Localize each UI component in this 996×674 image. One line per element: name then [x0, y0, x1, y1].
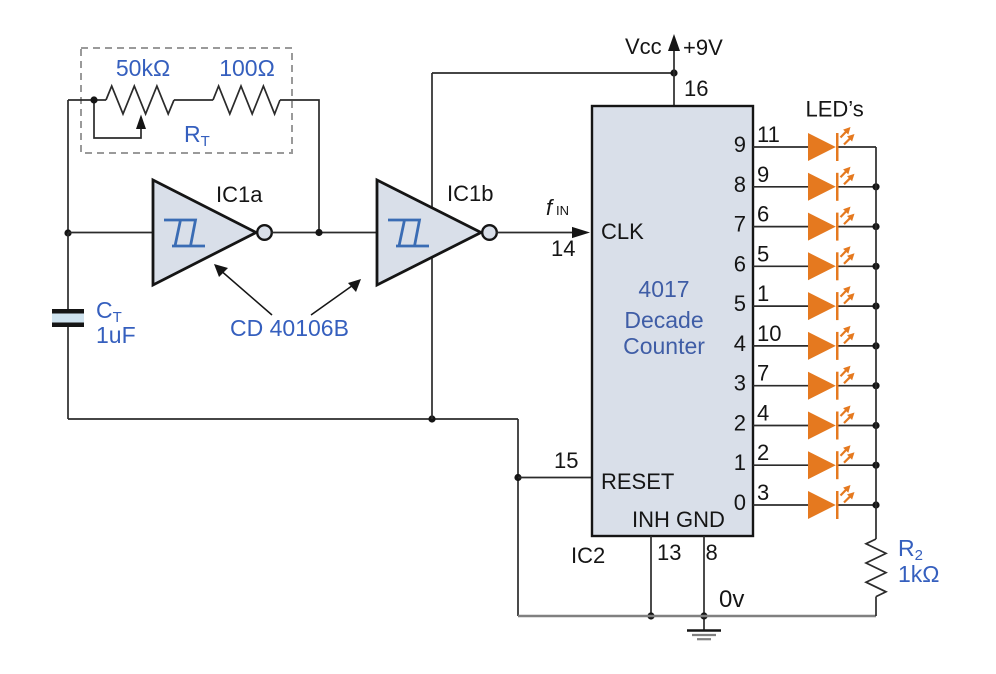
wire: LED cathode to common rail	[839, 385, 877, 387]
svg-text:IC2: IC2	[571, 543, 605, 568]
svg-text:3: 3	[734, 371, 746, 396]
svg-text:1: 1	[734, 450, 746, 475]
junction: rail row 0	[872, 501, 879, 508]
svg-text:+9V: +9V	[683, 35, 723, 60]
LED D1	[808, 127, 855, 161]
svg-text:RESET: RESET	[601, 469, 674, 494]
capacitor CT	[52, 309, 84, 327]
junction: Vcc node	[670, 69, 677, 76]
op-amp/inverter IC1a	[153, 180, 272, 285]
power symbol Vcc arrow	[673, 50, 675, 106]
junction: feedback node	[315, 229, 322, 236]
wire: bottom run corner down to 0v rail	[517, 419, 519, 616]
svg-text:0v: 0v	[719, 586, 744, 613]
wire: output 8 to LED	[753, 186, 808, 188]
wire: LED cathode to common rail	[839, 305, 877, 307]
wire: LED cathode to common rail	[839, 425, 877, 427]
wire: output 9 to LED	[753, 146, 808, 148]
svg-text:6: 6	[734, 251, 746, 276]
LED D3	[808, 207, 855, 241]
resistor R2 zigzag	[866, 539, 886, 597]
junction: rail row 4	[872, 342, 879, 349]
junction: rail row 8	[872, 183, 879, 190]
svg-text:IN: IN	[556, 203, 569, 218]
wire: CT bottom to ground rail	[67, 327, 69, 419]
svg-text:2: 2	[757, 440, 769, 465]
wire: 0v rail (grey)	[518, 615, 876, 617]
svg-text:4: 4	[757, 401, 769, 426]
op-amp/inverter IC1b	[377, 180, 497, 285]
svg-text:1kΩ: 1kΩ	[898, 561, 940, 587]
wire: LED cathode to common rail	[839, 226, 877, 228]
ground symbol	[687, 631, 721, 640]
svg-text:1: 1	[757, 281, 769, 306]
svg-text:100Ω: 100Ω	[219, 55, 275, 81]
wire: output 3 to LED	[753, 385, 808, 387]
wire: GND pin 8	[703, 536, 705, 630]
svg-text:CD 40106B: CD 40106B	[230, 315, 349, 341]
svg-text:IC1a: IC1a	[216, 182, 263, 207]
svg-text:5: 5	[734, 291, 746, 316]
wire: left vertical to CT	[67, 233, 69, 309]
annotation arrow to IC1b	[311, 283, 356, 315]
wire: pot right lead to feedback corner	[280, 100, 319, 233]
wire: output 4 to LED	[753, 345, 808, 347]
junction: rail row 3	[872, 382, 879, 389]
svg-text:4: 4	[734, 331, 746, 356]
wire: pot left lead	[68, 99, 106, 101]
wire: LED common rail	[875, 147, 877, 539]
wire: output 1 to LED	[753, 464, 808, 466]
LED D8	[808, 406, 855, 440]
svg-text:INH GND: INH GND	[632, 507, 725, 532]
svg-text:5: 5	[757, 241, 769, 266]
wire: output 7 to LED	[753, 226, 808, 228]
svg-text:7: 7	[757, 361, 769, 386]
pot wiper arrowhead	[136, 115, 146, 130]
wire: R2 to 0v rail	[875, 597, 877, 616]
svg-text:13: 13	[657, 540, 681, 565]
annotation arrow to IC1a	[219, 269, 272, 315]
LED D2	[808, 167, 855, 201]
wire: IC1a input	[68, 232, 153, 234]
IC U2 4017 body	[592, 106, 753, 536]
wire: output 6 to LED	[753, 265, 808, 267]
svg-text:9: 9	[757, 162, 769, 187]
wire: output 5 to LED	[753, 305, 808, 307]
svg-text:11: 11	[757, 122, 780, 147]
junction: rail row 1	[872, 462, 879, 469]
svg-text:10: 10	[757, 321, 781, 346]
wire: LED cathode to common rail	[839, 265, 877, 267]
wire: top rail	[432, 72, 674, 74]
svg-text:IC1b: IC1b	[447, 181, 493, 206]
wire: LED cathode to common rail	[839, 146, 877, 148]
wire: output 0 to LED	[753, 504, 808, 506]
svg-text:50kΩ: 50kΩ	[116, 55, 170, 81]
wire: LED cathode to common rail	[839, 504, 877, 506]
wire: IC1b output to CLK with arrowhead	[496, 232, 576, 234]
wire: IC1a output to IC1b input	[271, 232, 377, 234]
svg-text:7: 7	[734, 212, 746, 237]
wire: left vertical upper	[67, 100, 69, 233]
junction: rail row 5	[872, 303, 879, 310]
svg-text:Decade: Decade	[624, 307, 703, 333]
svg-text:0: 0	[734, 490, 746, 515]
svg-text:Vcc: Vcc	[625, 34, 662, 59]
svg-text:2: 2	[734, 411, 746, 436]
LED D4	[808, 246, 855, 280]
svg-text:Counter: Counter	[623, 333, 705, 359]
svg-text:16: 16	[684, 76, 708, 101]
wire: bottom horizontal run	[68, 418, 518, 420]
junction: rail row 2	[872, 422, 879, 429]
wire between resistors	[174, 99, 213, 101]
LED D7	[808, 366, 855, 400]
svg-text:9: 9	[734, 132, 746, 157]
junction: reset node	[514, 474, 521, 481]
resistor 100 ohm zigzag	[213, 86, 280, 114]
LED D9	[808, 445, 855, 479]
svg-text:8: 8	[706, 540, 718, 565]
potentiometer 50k zigzag	[106, 86, 174, 114]
junction: wiper to left lead	[90, 96, 97, 103]
wire: output 2 to LED	[753, 425, 808, 427]
wire: vertical from top rail down behind IC1b to bottom run	[431, 73, 433, 419]
LED D5	[808, 286, 855, 320]
junction: INH to 0v rail	[647, 612, 654, 619]
junction: rail row 6	[872, 263, 879, 270]
LED D10	[808, 485, 855, 519]
junction: IC1a input node	[64, 229, 71, 236]
wire: INH pin 13	[650, 536, 652, 616]
LED D6	[808, 326, 855, 360]
junction: rail row 7	[872, 223, 879, 230]
svg-text:6: 6	[757, 202, 769, 227]
svg-text:15: 15	[554, 448, 578, 473]
dashed box around RT network	[81, 48, 292, 153]
wire: LED cathode to common rail	[839, 186, 877, 188]
svg-text:14: 14	[551, 236, 575, 261]
svg-text:1uF: 1uF	[96, 322, 136, 348]
wire: reset to pin 15	[518, 477, 592, 479]
svg-text:3: 3	[757, 480, 769, 505]
pot wiper arm wire	[94, 100, 141, 138]
wire: LED cathode to common rail	[839, 345, 877, 347]
svg-text:8: 8	[734, 172, 746, 197]
junction: GND to 0v rail	[700, 612, 707, 619]
junction: bottom run with IC1b bypass wire	[428, 415, 435, 422]
wire: LED cathode to common rail	[839, 464, 877, 466]
svg-text:CLK: CLK	[601, 219, 644, 244]
svg-text:4017: 4017	[638, 276, 689, 302]
svg-text:LED’s: LED’s	[806, 97, 864, 122]
